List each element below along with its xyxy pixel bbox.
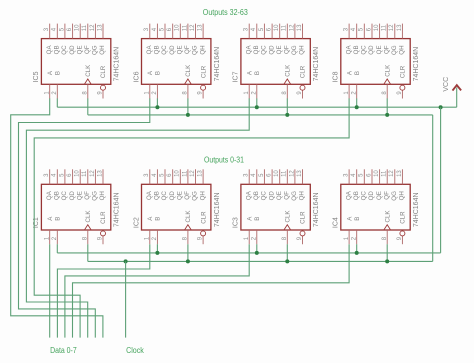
wire B pin IC6 to VCC bus: [156, 98, 158, 107]
svg-text:12: 12: [289, 170, 295, 177]
svg-text:6: 6: [167, 173, 173, 177]
IC1 CLR inversion bubble: [101, 231, 106, 236]
IC5 bottom pins 1 (A), 2 (B), 8 (CLK), 9 (CLR): [45, 84, 104, 98]
svg-text:B: B: [155, 71, 162, 75]
svg-text:QD: QD: [169, 45, 176, 55]
svg-text:4: 4: [152, 27, 158, 31]
svg-text:13: 13: [97, 170, 103, 177]
svg-text:74HC164N: 74HC164N: [114, 192, 121, 227]
svg-text:9: 9: [397, 91, 403, 95]
svg-text:QG: QG: [291, 191, 298, 201]
svg-text:Outputs 0-31: Outputs 0-31: [204, 155, 244, 164]
svg-text:CLR: CLR: [300, 65, 307, 78]
svg-text:11: 11: [282, 170, 288, 177]
junction VCC bus at IC8 B: [355, 105, 359, 109]
svg-text:CLK: CLK: [85, 210, 92, 223]
svg-text:QA: QA: [146, 190, 153, 200]
svg-text:B: B: [354, 71, 361, 75]
svg-text:12: 12: [90, 24, 96, 31]
wire data line for IC8 A input: [34, 98, 349, 337]
svg-text:11: 11: [382, 24, 388, 31]
svg-text:QF: QF: [184, 191, 191, 200]
wire data line for IC2 A input: [57, 244, 149, 337]
svg-text:9: 9: [97, 91, 103, 95]
svg-text:QG: QG: [391, 45, 398, 55]
svg-text:10: 10: [274, 24, 280, 31]
IC3 input labels A, B, CLK, CLR: [246, 210, 306, 224]
wire VCC bus (bottom row B inputs): [57, 252, 440, 254]
svg-text:Data 0-7: Data 0-7: [50, 346, 77, 355]
svg-text:QA: QA: [345, 45, 352, 55]
IC7 pin names QA-QH: [245, 45, 305, 56]
junction bottom VCC bus at IC4 B: [355, 251, 359, 255]
svg-text:QF: QF: [284, 191, 291, 200]
shift register IC6 74HC164N: [133, 24, 221, 99]
svg-text:CLK: CLK: [85, 64, 92, 77]
svg-text:11: 11: [182, 24, 188, 31]
IC7 clock edge triangle: [284, 79, 291, 84]
svg-text:QD: QD: [368, 191, 375, 201]
svg-text:QF: QF: [383, 45, 390, 54]
svg-text:CLK: CLK: [285, 210, 292, 223]
svg-text:Clock: Clock: [126, 346, 145, 355]
wire clock bus (top row): [88, 114, 433, 116]
svg-text:QC: QC: [261, 45, 268, 55]
svg-text:74HC164N: 74HC164N: [214, 192, 221, 227]
svg-text:CLK: CLK: [285, 64, 292, 77]
svg-text:3: 3: [44, 27, 50, 31]
IC4 body (74HC164N shift register): [341, 184, 410, 230]
IC2 clock edge triangle: [185, 225, 192, 230]
IC4 pin names QA-QH: [345, 190, 405, 201]
svg-text:9: 9: [97, 236, 103, 240]
svg-text:11: 11: [82, 170, 88, 177]
svg-text:QE: QE: [177, 45, 184, 54]
svg-text:CLR: CLR: [400, 211, 407, 224]
IC5 body (74HC164N shift register): [41, 39, 110, 85]
svg-text:QF: QF: [84, 191, 91, 200]
svg-text:QF: QF: [184, 45, 191, 54]
svg-text:5: 5: [59, 173, 65, 177]
svg-text:QC: QC: [161, 45, 168, 55]
IC2 body (74HC164N shift register): [142, 184, 211, 230]
svg-text:CLR: CLR: [200, 65, 207, 78]
svg-text:A: A: [47, 216, 54, 221]
IC3 clock edge triangle: [284, 225, 291, 230]
wire CLK pin IC6 to clock bus: [187, 98, 189, 115]
IC7 body (74HC164N shift register): [241, 39, 310, 85]
svg-text:QH: QH: [199, 191, 206, 200]
svg-text:QC: QC: [361, 45, 368, 55]
svg-text:3: 3: [344, 173, 350, 177]
junction VCC bus at IC6 B: [155, 105, 159, 109]
wire CLK pin IC8 to clock bus: [386, 98, 388, 115]
svg-text:QC: QC: [361, 191, 368, 201]
svg-text:QE: QE: [276, 45, 283, 54]
wire CLK pin IC2 to clock bus: [187, 244, 189, 261]
svg-text:CLR: CLR: [200, 211, 207, 224]
svg-text:A: A: [246, 216, 253, 221]
wire B pin IC5 to VCC bus: [56, 98, 58, 107]
junction VCC bus at IC7 B: [255, 105, 259, 109]
wire B pin IC3 to VCC bus: [256, 244, 258, 253]
svg-text:13: 13: [198, 24, 204, 31]
junction bottom clock bus at IC3 CLK: [285, 259, 289, 263]
svg-text:13: 13: [97, 24, 103, 31]
svg-text:CLR: CLR: [400, 65, 407, 78]
svg-text:4: 4: [351, 27, 357, 31]
svg-text:B: B: [155, 217, 162, 221]
wire B pin IC7 to VCC bus: [256, 98, 258, 107]
wire CLK pin IC1 to clock bus: [87, 244, 89, 261]
svg-text:QD: QD: [169, 191, 176, 201]
svg-text:3: 3: [244, 27, 250, 31]
svg-text:13: 13: [297, 24, 303, 31]
wire B pin IC1 to VCC bus: [56, 244, 58, 253]
svg-text:4: 4: [152, 173, 158, 177]
wire clock bus (bottom row): [88, 260, 433, 262]
shift register IC4 74HC164N: [333, 169, 421, 244]
svg-text:Outputs 32-63: Outputs 32-63: [203, 8, 248, 17]
IC5 clock edge triangle: [84, 79, 91, 84]
svg-text:CLR: CLR: [300, 211, 307, 224]
svg-text:6: 6: [267, 173, 273, 177]
svg-text:A: A: [346, 216, 353, 221]
shift register IC1 74HC164N: [33, 169, 121, 244]
svg-text:QB: QB: [154, 191, 161, 200]
IC8 body (74HC164N shift register): [341, 39, 410, 85]
junction bottom VCC bus at IC2 B: [155, 251, 159, 255]
svg-text:IC4: IC4: [333, 217, 340, 228]
IC8 bottom pins 1 (A), 2 (B), 8 (CLK), 9 (CLR): [344, 84, 403, 98]
IC6 top output pins 3,4,5,6,10,11,12,13: [144, 24, 203, 39]
svg-text:11: 11: [82, 24, 88, 31]
svg-text:QG: QG: [92, 191, 99, 201]
svg-text:QH: QH: [399, 191, 406, 200]
svg-text:12: 12: [389, 24, 395, 31]
svg-text:A: A: [246, 70, 253, 75]
svg-text:IC7: IC7: [233, 71, 240, 82]
svg-text:6: 6: [366, 173, 372, 177]
svg-text:QA: QA: [245, 45, 252, 55]
svg-text:QB: QB: [353, 45, 360, 54]
svg-text:4: 4: [351, 173, 357, 177]
IC2 pin names QA-QH: [146, 190, 206, 201]
svg-text:A: A: [147, 216, 154, 221]
svg-text:13: 13: [397, 24, 403, 31]
wire CLK pin IC5 to clock bus: [87, 98, 89, 115]
IC5 input labels A, B, CLK, CLR: [47, 64, 107, 78]
svg-text:QC: QC: [61, 45, 68, 55]
wire VCC feed down to bottom row: [440, 107, 442, 253]
IC6 CLR inversion bubble: [201, 85, 206, 90]
svg-text:QA: QA: [146, 45, 153, 55]
svg-text:4: 4: [52, 173, 58, 177]
IC6 bottom pins 1 (A), 2 (B), 8 (CLK), 9 (CLR): [145, 84, 204, 98]
IC4 clock edge triangle: [384, 225, 391, 230]
junction clock bus at IC8 CLK: [385, 113, 389, 117]
IC4 bottom pins 1 (A), 2 (B), 8 (CLK), 9 (CLR): [344, 230, 403, 244]
IC2 input labels A, B, CLK, CLR: [147, 210, 207, 224]
svg-text:11: 11: [182, 170, 188, 177]
IC8 input labels A, B, CLK, CLR: [346, 64, 406, 78]
junction bottom VCC bus at IC3 B: [255, 251, 259, 255]
svg-text:10: 10: [75, 24, 81, 31]
svg-text:12: 12: [190, 170, 196, 177]
svg-text:10: 10: [374, 24, 380, 31]
wire data line for IC1 A input: [49, 244, 51, 337]
wire B pin IC2 to VCC bus: [156, 244, 158, 253]
IC2 CLR inversion bubble: [201, 231, 206, 236]
svg-text:5: 5: [59, 27, 65, 31]
svg-text:74HC164N: 74HC164N: [313, 192, 320, 227]
junction bottom clock bus at IC4 CLK: [385, 259, 389, 263]
IC5 top output pins 3,4,5,6,10,11,12,13: [44, 24, 103, 39]
svg-text:12: 12: [389, 170, 395, 177]
svg-text:QG: QG: [192, 191, 199, 201]
svg-text:IC3: IC3: [233, 217, 240, 228]
svg-text:3: 3: [44, 173, 50, 177]
svg-text:B: B: [354, 217, 361, 221]
junction clock bus to Clock input drop: [124, 259, 128, 263]
svg-text:12: 12: [90, 170, 96, 177]
svg-text:QH: QH: [399, 45, 406, 54]
svg-text:10: 10: [175, 24, 181, 31]
svg-text:6: 6: [267, 27, 273, 31]
IC2 bottom pins 1 (A), 2 (B), 8 (CLK), 9 (CLR): [145, 230, 204, 244]
IC3 top output pins 3,4,5,6,10,11,12,13: [244, 169, 303, 184]
junction clock bus at IC7 CLK: [285, 113, 289, 117]
wire VCC bus riser to VCC symbol: [456, 88, 458, 108]
IC6 pin names QA-QH: [146, 45, 206, 56]
IC7 input labels A, B, CLK, CLR: [246, 64, 306, 78]
shift register IC2 74HC164N: [133, 169, 221, 244]
junction clock bus at IC6 CLK: [186, 113, 190, 117]
IC1 body (74HC164N shift register): [41, 184, 110, 230]
svg-text:QH: QH: [299, 45, 306, 54]
svg-text:QH: QH: [199, 45, 206, 54]
IC7 top output pins 3,4,5,6,10,11,12,13: [244, 24, 303, 39]
IC8 CLR inversion bubble: [400, 85, 405, 90]
svg-text:5: 5: [259, 173, 265, 177]
shift register IC8 74HC164N: [333, 24, 421, 99]
svg-text:QE: QE: [376, 191, 383, 200]
svg-text:12: 12: [289, 24, 295, 31]
svg-text:IC2: IC2: [133, 217, 140, 228]
svg-text:4: 4: [251, 27, 257, 31]
svg-text:B: B: [55, 217, 62, 221]
svg-text:QB: QB: [54, 45, 61, 54]
wire clock feed down to bottom row: [432, 115, 434, 262]
svg-text:6: 6: [366, 27, 372, 31]
svg-text:QC: QC: [261, 191, 268, 201]
svg-text:CLK: CLK: [185, 64, 192, 77]
svg-text:74HC164N: 74HC164N: [214, 47, 221, 82]
svg-text:A: A: [346, 70, 353, 75]
svg-text:3: 3: [244, 173, 250, 177]
svg-text:5: 5: [159, 173, 165, 177]
wire data line for IC5 A input: [11, 98, 103, 337]
junction bottom clock bus at IC2 CLK: [186, 259, 190, 263]
svg-text:QB: QB: [253, 191, 260, 200]
IC1 clock edge triangle: [84, 225, 91, 230]
IC5 pin names QA-QH: [46, 45, 106, 56]
IC3 bottom pins 1 (A), 2 (B), 8 (CLK), 9 (CLR): [244, 230, 303, 244]
svg-text:12: 12: [190, 24, 196, 31]
svg-text:QF: QF: [84, 45, 91, 54]
svg-text:13: 13: [397, 170, 403, 177]
IC3 pin names QA-QH: [245, 190, 305, 201]
svg-text:3: 3: [144, 173, 150, 177]
svg-text:QH: QH: [99, 45, 106, 54]
svg-text:QG: QG: [391, 191, 398, 201]
wire data line for IC6 A input: [19, 98, 150, 337]
svg-text:B: B: [254, 217, 261, 221]
svg-text:QE: QE: [76, 191, 83, 200]
svg-text:9: 9: [397, 236, 403, 240]
IC5 CLR inversion bubble: [101, 85, 106, 90]
IC8 top output pins 3,4,5,6,10,11,12,13: [344, 24, 403, 39]
junction VCC bus branch to bottom row: [439, 105, 443, 109]
wire B pin IC4 to VCC bus: [356, 244, 358, 253]
svg-text:QH: QH: [99, 191, 106, 200]
wire CLK pin IC3 to clock bus: [286, 244, 288, 261]
svg-text:QB: QB: [253, 45, 260, 54]
svg-text:QB: QB: [54, 191, 61, 200]
svg-text:QA: QA: [345, 190, 352, 200]
shift register IC3 74HC164N: [233, 169, 321, 244]
svg-text:3: 3: [344, 27, 350, 31]
svg-text:13: 13: [198, 170, 204, 177]
svg-text:CLR: CLR: [100, 65, 107, 78]
svg-text:QE: QE: [76, 45, 83, 54]
svg-text:6: 6: [67, 27, 73, 31]
IC8 clock edge triangle: [384, 79, 391, 84]
svg-text:IC5: IC5: [33, 71, 40, 82]
svg-text:A: A: [47, 70, 54, 75]
IC7 bottom pins 1 (A), 2 (B), 8 (CLK), 9 (CLR): [244, 84, 303, 98]
svg-text:CLR: CLR: [100, 211, 107, 224]
svg-text:QD: QD: [268, 191, 275, 201]
IC6 input labels A, B, CLK, CLR: [147, 64, 207, 78]
svg-text:QG: QG: [291, 45, 298, 55]
svg-text:QD: QD: [69, 191, 76, 201]
IC8 pin names QA-QH: [345, 45, 405, 56]
IC4 top output pins 3,4,5,6,10,11,12,13: [344, 169, 403, 184]
IC2 top output pins 3,4,5,6,10,11,12,13: [144, 169, 203, 184]
svg-text:10: 10: [374, 170, 380, 177]
svg-text:QC: QC: [61, 191, 68, 201]
IC1 top output pins 3,4,5,6,10,11,12,13: [44, 169, 103, 184]
svg-text:11: 11: [282, 24, 288, 31]
svg-text:74HC164N: 74HC164N: [313, 47, 320, 82]
svg-text:9: 9: [297, 91, 303, 95]
wire CLK pin IC7 to clock bus: [286, 98, 288, 115]
svg-text:QG: QG: [92, 45, 99, 55]
IC4 CLR inversion bubble: [400, 231, 405, 236]
svg-text:QE: QE: [276, 191, 283, 200]
svg-text:QB: QB: [353, 191, 360, 200]
IC6 clock edge triangle: [185, 79, 192, 84]
wire data line for IC4 A input: [73, 244, 350, 337]
svg-text:IC6: IC6: [133, 71, 140, 82]
svg-text:QF: QF: [284, 45, 291, 54]
svg-text:QD: QD: [368, 45, 375, 55]
svg-text:9: 9: [297, 236, 303, 240]
svg-text:QE: QE: [177, 191, 184, 200]
svg-text:QF: QF: [383, 191, 390, 200]
svg-text:A: A: [147, 70, 154, 75]
power symbol VCC: [443, 77, 461, 92]
svg-text:B: B: [254, 71, 261, 75]
svg-text:13: 13: [297, 170, 303, 177]
wire data line for IC7 A input: [26, 98, 249, 337]
IC6 body (74HC164N shift register): [142, 39, 211, 85]
svg-text:6: 6: [167, 27, 173, 31]
IC3 body (74HC164N shift register): [241, 184, 310, 230]
svg-text:3: 3: [144, 27, 150, 31]
IC4 input labels A, B, CLK, CLR: [346, 210, 406, 224]
wire CLK pin IC4 to clock bus: [386, 244, 388, 261]
svg-text:6: 6: [67, 173, 73, 177]
svg-text:11: 11: [382, 170, 388, 177]
svg-text:QA: QA: [245, 190, 252, 200]
IC1 input labels A, B, CLK, CLR: [47, 210, 107, 224]
svg-text:QD: QD: [268, 45, 275, 55]
IC1 pin names QA-QH: [46, 190, 106, 201]
svg-text:QG: QG: [192, 45, 199, 55]
svg-text:IC8: IC8: [333, 71, 340, 82]
wire data line for IC3 A input: [65, 244, 249, 337]
svg-text:QE: QE: [376, 45, 383, 54]
svg-text:VCC: VCC: [443, 77, 450, 92]
wire B pin IC8 to VCC bus: [356, 98, 358, 107]
svg-text:QH: QH: [299, 191, 306, 200]
svg-text:4: 4: [52, 27, 58, 31]
svg-text:9: 9: [198, 91, 204, 95]
IC1 bottom pins 1 (A), 2 (B), 8 (CLK), 9 (CLR): [45, 230, 104, 244]
wire VCC bus (top row B inputs): [57, 106, 456, 108]
IC7 CLR inversion bubble: [300, 85, 305, 90]
svg-text:5: 5: [359, 27, 365, 31]
svg-text:QA: QA: [46, 45, 53, 55]
svg-text:10: 10: [274, 170, 280, 177]
svg-text:5: 5: [359, 173, 365, 177]
svg-text:9: 9: [198, 236, 204, 240]
svg-text:74HC164N: 74HC164N: [114, 47, 121, 82]
svg-text:QC: QC: [161, 191, 168, 201]
svg-text:QA: QA: [46, 190, 53, 200]
svg-text:10: 10: [75, 170, 81, 177]
svg-text:74HC164N: 74HC164N: [413, 192, 420, 227]
IC3 CLR inversion bubble: [300, 231, 305, 236]
svg-text:QD: QD: [69, 45, 76, 55]
svg-text:CLK: CLK: [185, 210, 192, 223]
svg-text:5: 5: [159, 27, 165, 31]
svg-text:4: 4: [251, 173, 257, 177]
svg-text:74HC164N: 74HC164N: [413, 47, 420, 82]
svg-text:B: B: [55, 71, 62, 75]
svg-text:QB: QB: [154, 45, 161, 54]
svg-text:CLK: CLK: [384, 64, 391, 77]
shift register IC7 74HC164N: [233, 24, 321, 99]
svg-text:CLK: CLK: [384, 210, 391, 223]
svg-text:5: 5: [259, 27, 265, 31]
wire Clock input drop: [125, 261, 127, 337]
svg-text:10: 10: [175, 170, 181, 177]
shift register IC5 74HC164N: [33, 24, 121, 99]
